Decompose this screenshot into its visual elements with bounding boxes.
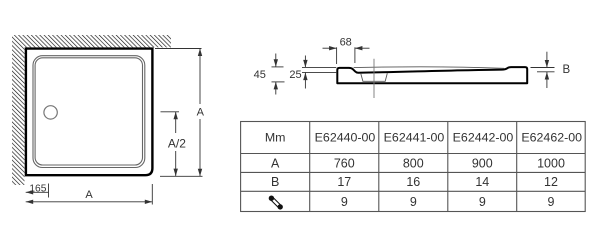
dimension A (bottom horizontal)	[26, 184, 153, 205]
svg-text:165: 165	[29, 183, 46, 194]
dimension 68	[323, 47, 370, 64]
table weight row values	[341, 195, 555, 209]
svg-text:12: 12	[544, 175, 558, 189]
svg-text:760: 760	[334, 156, 355, 170]
svg-text:B: B	[562, 64, 570, 76]
svg-text:14: 14	[475, 175, 489, 189]
svg-text:Mm: Mm	[265, 131, 286, 145]
svg-text:800: 800	[403, 156, 424, 170]
back rim edge (thin visible edge)	[354, 67, 504, 68]
drain recess (section)	[361, 73, 388, 81]
table row A	[271, 156, 565, 170]
svg-text:1000: 1000	[537, 156, 565, 170]
dimension 25	[302, 56, 336, 89]
svg-text:9: 9	[548, 195, 555, 209]
svg-text:17: 17	[337, 175, 351, 189]
table header row	[265, 131, 582, 145]
drain centerline	[373, 59, 375, 98]
svg-text:9: 9	[341, 195, 348, 209]
svg-text:68: 68	[340, 36, 352, 48]
dimension A/2 (vertical)	[161, 112, 180, 176]
svg-text:9: 9	[410, 195, 417, 209]
wall hatch (top and left bands of plan view)	[12, 35, 171, 185]
dimension 165	[26, 184, 49, 198]
weight icon (dumbbell)	[269, 196, 283, 210]
top extension line (right of tray)	[155, 48, 202, 50]
dimension A (right vertical)	[199, 49, 201, 177]
svg-text:B: B	[271, 175, 279, 189]
svg-text:A: A	[85, 189, 93, 201]
svg-text:A: A	[197, 107, 205, 119]
svg-text:E62462-00: E62462-00	[521, 131, 582, 145]
table grid	[241, 122, 586, 212]
tray outer outline (plan view)	[26, 49, 152, 176]
svg-text:E62441-00: E62441-00	[384, 131, 445, 145]
svg-text:E62440-00: E62440-00	[315, 131, 376, 145]
svg-text:A: A	[271, 156, 280, 170]
svg-text:9: 9	[479, 195, 486, 209]
tray inner rim line 1	[33, 56, 145, 168]
bottom extension line (right of tray)	[160, 175, 203, 177]
dimension B	[531, 52, 555, 88]
svg-text:45: 45	[254, 69, 266, 81]
tray inner rim line 2	[35, 58, 142, 165]
svg-text:A/2: A/2	[168, 137, 186, 151]
dimension 45	[272, 54, 285, 95]
drain circle	[44, 106, 57, 119]
svg-text:25: 25	[289, 69, 301, 81]
svg-text:E62442-00: E62442-00	[453, 131, 514, 145]
table row B	[271, 175, 558, 189]
cross-section profile outline	[337, 67, 527, 83]
svg-text:16: 16	[406, 175, 420, 189]
svg-text:900: 900	[472, 156, 493, 170]
